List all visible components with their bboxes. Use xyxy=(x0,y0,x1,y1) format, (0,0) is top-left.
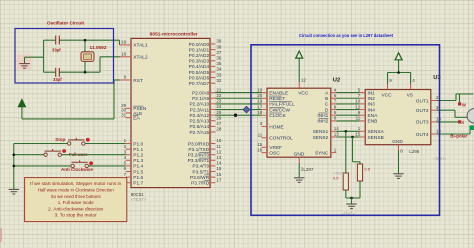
motor green terminal block xyxy=(470,126,474,130)
U2 pin 14 SENS1 xyxy=(313,126,340,135)
wire OUT2 to motor xyxy=(436,110,467,117)
U3 pin 11 ENB xyxy=(356,116,378,125)
U1 pin 3 P1.2 xyxy=(124,149,144,158)
svg-text:ENA: ENA xyxy=(368,113,379,119)
motor terminal W xyxy=(462,103,467,108)
button Stop xyxy=(68,138,90,145)
svg-text:EA: EA xyxy=(133,116,140,122)
svg-text:16: 16 xyxy=(216,172,222,177)
svg-text:SYNC: SYNC xyxy=(315,150,329,156)
svg-text:15: 15 xyxy=(355,132,361,137)
U3 pin 14 OUT4 xyxy=(416,129,442,138)
L297 datasheet annotation box xyxy=(251,45,440,216)
svg-text:10: 10 xyxy=(257,87,263,92)
U1 pin 32 P0.7/AD7 xyxy=(189,78,222,87)
label Anti Clockwise xyxy=(61,167,93,172)
svg-text:33pf: 33pf xyxy=(53,77,62,82)
svg-text:OSC: OSC xyxy=(269,150,280,156)
U1 pin 17 P3.7/RD xyxy=(191,177,222,186)
U3 pin 8 GND xyxy=(392,139,403,154)
svg-text:P2.6/A14: P2.6/A14 xyxy=(189,124,209,130)
svg-text:31: 31 xyxy=(121,112,127,117)
svg-text:11.0592: 11.0592 xyxy=(90,45,108,50)
U1 pin 15 P3.5/T1 xyxy=(192,166,222,175)
U2 pin 6 B xyxy=(325,93,337,102)
svg-text:SENS1: SENS1 xyxy=(313,129,329,135)
svg-text:12: 12 xyxy=(355,104,361,109)
U2 pin 7 C xyxy=(325,99,337,108)
wire XTAL2 net: C2 to riser to box edge xyxy=(60,57,121,72)
wire ground tap xyxy=(25,57,44,63)
note text line 2 xyxy=(38,188,114,193)
U2 pin 19 HALF/FULL xyxy=(257,99,295,108)
svg-text:P0.3/AD3: P0.3/AD3 xyxy=(189,59,210,65)
svg-text:P1.5: P1.5 xyxy=(133,169,143,175)
wire P2.1-RESET xyxy=(215,97,261,99)
label U3 TEXT placeholder xyxy=(433,157,446,161)
U1 pin 25 P2.4/A12 xyxy=(189,110,221,119)
label U2 xyxy=(333,78,340,84)
svg-text:<TEXT>: <TEXT> xyxy=(131,197,147,202)
junction crystal bottom xyxy=(84,71,87,74)
svg-text:P2.2/A10: P2.2/A10 xyxy=(189,102,209,108)
U2 pin 18 CLOCK xyxy=(257,110,286,119)
junction SENS2 xyxy=(351,136,354,139)
wire capacitor left bus xyxy=(44,40,56,72)
svg-text:P3.7/RD: P3.7/RD xyxy=(191,181,210,187)
svg-text:1. Full wave mode: 1. Full wave mode xyxy=(58,200,94,205)
wire Stop to P1.0 xyxy=(85,143,126,145)
svg-text:17: 17 xyxy=(216,177,222,182)
wire U2 GND down xyxy=(298,163,300,177)
U1 pin 5 P1.4 xyxy=(124,161,144,170)
svg-text:12: 12 xyxy=(216,149,222,154)
svg-text:24: 24 xyxy=(216,104,222,109)
U3 pin 7 IN2 xyxy=(358,93,376,102)
svg-text:13: 13 xyxy=(216,155,222,160)
wire B-IN2 xyxy=(336,97,359,99)
U2 pin 8 INH2 xyxy=(317,116,336,125)
U1 pin 21 P2.0/A8 xyxy=(192,87,222,96)
wire XTAL1 net: C1 to crystal to box edge xyxy=(60,40,120,45)
svg-text:32: 32 xyxy=(216,78,222,83)
U1 pin 24 P2.3/A11 xyxy=(190,104,222,113)
U3 pin 15 SENSB xyxy=(355,132,383,141)
svg-text:34: 34 xyxy=(216,67,222,72)
svg-text:13: 13 xyxy=(334,132,340,137)
svg-text:D: D xyxy=(325,107,329,113)
U1 pin 29 PSEN xyxy=(121,103,147,112)
note text line 1 xyxy=(30,181,122,186)
wire Full wave to P1.2 xyxy=(61,154,125,156)
wire D-IN4 xyxy=(336,109,359,111)
U3 pin 1 SENSA xyxy=(358,126,385,135)
wire SENS2 to R2 xyxy=(353,137,361,164)
svg-text:RESET: RESET xyxy=(269,96,285,102)
U1 pin 30 ALE xyxy=(121,108,142,117)
power symbol on RST net xyxy=(18,100,25,107)
ground (U2) xyxy=(294,178,305,183)
wire OUT3 to motor xyxy=(436,121,459,123)
U1 pin 35 P0.4/AD4 xyxy=(189,61,222,70)
svg-text:18: 18 xyxy=(257,110,263,115)
label C2 value 33pf xyxy=(53,77,62,82)
svg-text:P0.7/AD7: P0.7/AD7 xyxy=(189,81,210,87)
svg-text:33pf: 33pf xyxy=(52,48,61,53)
svg-text:28: 28 xyxy=(216,127,222,132)
U2 pin 5 INH1 xyxy=(317,110,336,119)
U1 pin 10 P3.0/RXD xyxy=(188,138,222,147)
wire A-IN1 xyxy=(336,92,359,94)
label U3 xyxy=(433,75,441,81)
wire OUT4 to motor xyxy=(436,130,470,134)
svg-text:8051-microcontroller: 8051-microcontroller xyxy=(150,31,198,36)
U1 pin 13 P3.3/INT1 xyxy=(188,155,222,164)
U2 pin 15 VREF xyxy=(257,142,282,151)
label 80C51 xyxy=(131,192,144,197)
label L297 xyxy=(303,167,314,172)
svg-text:11: 11 xyxy=(258,133,263,138)
button Full wave xyxy=(44,149,66,156)
crystal X1 11.0592 xyxy=(81,40,94,72)
microcontroller U1 body xyxy=(131,38,210,187)
U2 pin 11 CONTROL xyxy=(258,133,293,142)
U1 pin 6 P1.5 xyxy=(124,166,144,175)
wire Anti Clockwise to bus xyxy=(14,165,71,167)
U1 pin 31 EA xyxy=(121,112,140,121)
svg-text:P3.0/RXD: P3.0/RXD xyxy=(188,141,210,147)
svg-text:P2.0/A8: P2.0/A8 xyxy=(192,90,209,96)
svg-text:P0.2/AD2: P0.2/AD2 xyxy=(189,53,210,59)
wire resistor ground bus xyxy=(346,197,360,199)
U1 pin 26 P2.5/A13 xyxy=(189,115,221,124)
partial marker at left edge xyxy=(0,228,2,242)
U1 pin 36 P0.3/AD3 xyxy=(189,56,222,65)
U3 pin 10 IN3 xyxy=(355,99,375,108)
selection highlight around oscillator ground xyxy=(17,55,32,71)
svg-text:Bi-polar: Bi-polar xyxy=(450,133,467,138)
marker diamond on CW/CCW wire xyxy=(243,106,250,113)
label box TEXT placeholder xyxy=(342,212,355,216)
U3 pin 5 IN1 xyxy=(358,87,376,96)
U1 pin 38 P0.1/AD1 xyxy=(189,44,222,53)
wire button ground bus xyxy=(13,144,15,190)
label R2 value 0.5 xyxy=(364,166,370,171)
U2 pin 17 CW/CCW xyxy=(257,104,290,113)
power symbol VCC (U2) xyxy=(296,51,303,58)
svg-text:38: 38 xyxy=(216,44,222,49)
label Oscillator Circuit xyxy=(47,21,84,26)
U3 pin 2 OUT1 xyxy=(416,95,439,104)
svg-text:L298: L298 xyxy=(409,149,420,154)
svg-text:P0.0/AD0: P0.0/AD0 xyxy=(189,42,210,48)
svg-text:P0.1/AD1: P0.1/AD1 xyxy=(189,47,210,53)
wire OUT1 to motor xyxy=(436,94,473,102)
wire Full wave to bus xyxy=(14,154,44,156)
svg-text:P1.2: P1.2 xyxy=(133,153,143,159)
driver U3 L298 body xyxy=(365,90,431,145)
motor pad W xyxy=(458,102,461,105)
svg-text:33: 33 xyxy=(216,72,222,77)
U1 pin 27 P2.6/A14 xyxy=(189,121,221,130)
svg-text:ENABLE: ENABLE xyxy=(269,90,288,96)
note text line 6 xyxy=(55,213,98,218)
svg-text:XTAL1: XTAL1 xyxy=(133,43,148,49)
U1 pin 12 P3.2/INT0 xyxy=(188,149,222,158)
wire R1 to ground bus xyxy=(345,190,347,198)
U1 pin 18 XTAL2 xyxy=(120,52,148,61)
label U1 TEXT placeholder xyxy=(131,197,147,202)
svg-text:IN4: IN4 xyxy=(368,107,376,113)
svg-text:If we start simulation, Steppe: If we start simulation, Stepper motor ru… xyxy=(30,181,122,186)
svg-text:VREF: VREF xyxy=(269,145,282,151)
U1 pin 34 P0.5/AD5 xyxy=(189,67,222,76)
U2 pin 4 A xyxy=(325,87,337,96)
svg-text:CLOCK: CLOCK xyxy=(269,113,286,119)
note text line 5 xyxy=(48,206,104,211)
wire U3 GND down xyxy=(398,151,400,174)
U2 pin 9 D xyxy=(325,104,337,113)
U1 pin 2 P1.1 xyxy=(124,144,144,153)
junction crystal top xyxy=(84,39,87,42)
wire RST to power xyxy=(22,80,120,119)
resistor R1 0.5 xyxy=(343,173,348,190)
wire Anti Clockwise to P1.4 xyxy=(88,165,125,167)
svg-text:L297: L297 xyxy=(303,167,314,172)
svg-text:P0.6/AD6: P0.6/AD6 xyxy=(189,75,210,81)
svg-text:U2: U2 xyxy=(333,78,340,84)
svg-text:C: C xyxy=(325,102,329,108)
svg-text:37: 37 xyxy=(216,50,222,55)
label crystal value 11.0592 xyxy=(90,45,108,50)
ground (buttons) xyxy=(9,189,19,194)
svg-text:P2.5/A13: P2.5/A13 xyxy=(189,119,209,125)
label Stop xyxy=(55,137,65,142)
svg-text:P1.6: P1.6 xyxy=(133,175,143,181)
svg-text:P3.6/WR: P3.6/WR xyxy=(190,175,210,181)
wire INH2-ENB xyxy=(336,120,359,122)
svg-text:11: 11 xyxy=(216,144,221,149)
svg-text:Half wave mode in Clockwise Di: Half wave mode in Clockwise Direction xyxy=(38,188,114,193)
U1 pin 14 P3.4/T0 xyxy=(192,161,222,170)
wire P2.0-ENABLE xyxy=(215,92,261,94)
svg-text:OUT1: OUT1 xyxy=(416,98,429,104)
svg-text:IN3: IN3 xyxy=(368,102,376,108)
driver U2 L297 body xyxy=(267,88,331,157)
svg-text:SENSA: SENSA xyxy=(368,129,385,135)
svg-text:36: 36 xyxy=(216,56,222,61)
svg-text:0.5: 0.5 xyxy=(333,176,339,181)
capacitor C1 33pf xyxy=(56,36,60,45)
U1 pin 1 P1.0 xyxy=(124,138,144,147)
U3 pin 9 VCC xyxy=(382,78,393,99)
U3 pin 13 OUT3 xyxy=(416,117,442,126)
ground (U3) xyxy=(393,174,404,179)
wire ground stem xyxy=(351,198,353,204)
label R1 value 0.5 xyxy=(333,176,339,181)
svg-text:CONTROL: CONTROL xyxy=(269,136,293,142)
junction bus P1.2 row xyxy=(13,153,16,156)
ground (sense resistors) xyxy=(346,204,357,209)
svg-text:25: 25 xyxy=(216,110,222,115)
wire R2 to ground bus xyxy=(359,181,361,198)
U2 pin 16 OSC xyxy=(257,147,280,156)
svg-text:P2.3/A11: P2.3/A11 xyxy=(190,107,210,113)
svg-text:3. To stop the motor: 3. To stop the motor xyxy=(55,213,98,218)
ground (oscillator) xyxy=(19,64,30,69)
svg-text:P2.4/A12: P2.4/A12 xyxy=(189,113,209,119)
svg-text:11: 11 xyxy=(356,116,361,121)
label Full wave xyxy=(69,152,88,157)
label L298 xyxy=(409,149,420,154)
U2 pin 12 VCC xyxy=(298,77,309,96)
power symbol VCC (U3) xyxy=(395,53,402,60)
U1 pin 4 P1.3 xyxy=(124,155,144,164)
label Circuit connection as you see in L297 datasheet xyxy=(299,33,393,38)
svg-text:P1.7: P1.7 xyxy=(133,181,143,187)
capacitor C2 33pf xyxy=(56,68,60,77)
U2 pin 1 SYNC xyxy=(315,147,337,156)
svg-text:19: 19 xyxy=(121,40,127,45)
svg-text:10: 10 xyxy=(355,99,361,104)
svg-text:P1.0: P1.0 xyxy=(133,141,143,147)
svg-text:12: 12 xyxy=(301,77,307,82)
wire Stop to bus xyxy=(14,143,68,145)
wire SENS1-SENSA xyxy=(336,130,359,132)
note box xyxy=(25,178,127,222)
svg-text:OUT2: OUT2 xyxy=(416,108,429,114)
svg-text:HOME: HOME xyxy=(269,124,283,130)
svg-text:P1.1: P1.1 xyxy=(133,147,143,153)
svg-text:2. Anti-clockwise direction: 2. Anti-clockwise direction xyxy=(48,206,104,211)
svg-text:16: 16 xyxy=(257,147,263,152)
svg-text:22: 22 xyxy=(216,93,222,98)
svg-text:26: 26 xyxy=(216,115,222,120)
U1 pin 37 P0.2/AD2 xyxy=(189,50,222,59)
svg-text:Circuit connection as you see: Circuit connection as you see in L297 da… xyxy=(299,33,393,38)
svg-text:Oscillator Circuit: Oscillator Circuit xyxy=(47,21,84,26)
U1 pin 9 RST xyxy=(120,75,143,84)
label Bi-polar xyxy=(450,133,467,138)
wire U2 VCC to power xyxy=(298,57,300,82)
svg-text:OUT3: OUT3 xyxy=(416,120,429,126)
U2 pin 13 SENS2 xyxy=(313,132,340,141)
svg-text:P1.3: P1.3 xyxy=(133,158,143,164)
U3 pin 4 VS xyxy=(407,78,416,99)
svg-text:19: 19 xyxy=(257,99,263,104)
svg-text:P2.7/A15: P2.7/A15 xyxy=(189,130,209,136)
svg-text:GND: GND xyxy=(294,152,305,158)
svg-text:14: 14 xyxy=(216,161,222,166)
svg-text:P3.1/TXD: P3.1/TXD xyxy=(188,147,209,153)
U3 pin 12 IN4 xyxy=(355,104,375,113)
svg-text:P3.2/INT0: P3.2/INT0 xyxy=(188,153,210,159)
note text line 3 xyxy=(51,194,102,199)
junction bus P1.4 row xyxy=(13,165,16,168)
label R1 TEXT placeholder xyxy=(333,172,346,176)
label C1 value 33pf xyxy=(52,48,61,53)
label 8051-microcontroller xyxy=(150,31,198,36)
U2 pin 20 RESET xyxy=(257,93,285,102)
resistor R2 0.5 xyxy=(357,164,362,181)
junction U3 supply xyxy=(397,71,400,74)
svg-text:35: 35 xyxy=(216,61,222,66)
svg-text:14: 14 xyxy=(334,126,340,131)
wire U3 supply bracket xyxy=(388,59,411,84)
svg-text:So we need three buttons: So we need three buttons xyxy=(51,194,102,199)
svg-text:SENS2: SENS2 xyxy=(313,135,329,141)
motor body xyxy=(467,109,474,123)
U1 pin 28 P2.7/A15 xyxy=(189,127,221,136)
wire P2.3-CW/CCW xyxy=(215,109,261,111)
U1 pin 19 XTAL1 xyxy=(120,40,148,49)
svg-text:RST: RST xyxy=(133,78,143,84)
svg-text:VCC: VCC xyxy=(382,92,393,98)
svg-text:P0.5/AD5: P0.5/AD5 xyxy=(189,70,210,76)
U1 pin 33 P0.6/AD6 xyxy=(189,72,222,81)
svg-text:VS: VS xyxy=(407,92,413,98)
svg-text:P0.4/AD4: P0.4/AD4 xyxy=(189,64,210,70)
svg-text:P3.3/INT1: P3.3/INT1 xyxy=(188,158,210,164)
U3 pin 6 ENA xyxy=(358,110,378,119)
U1 pin 11 P3.1/TXD xyxy=(188,144,221,153)
wire SENS1 to R1 xyxy=(345,131,347,173)
U3 pin 3 OUT2 xyxy=(416,105,439,114)
svg-text:21: 21 xyxy=(216,87,222,92)
motor terminal X xyxy=(461,120,464,125)
U2 pin 2 GND xyxy=(294,152,305,172)
svg-text:18: 18 xyxy=(121,52,127,57)
svg-text:IN2: IN2 xyxy=(368,96,376,102)
junction on CLOCK wire xyxy=(234,114,237,117)
svg-text:X: X xyxy=(461,120,464,125)
svg-text:27: 27 xyxy=(216,121,222,126)
wire C-IN3 xyxy=(336,103,359,105)
svg-text:20: 20 xyxy=(257,93,263,98)
svg-text:XTAL2: XTAL2 xyxy=(133,55,148,61)
wire P2.4-CLOCK xyxy=(215,114,261,116)
junction SENS1 xyxy=(345,130,348,133)
svg-text:VCC: VCC xyxy=(298,91,309,97)
wire INH1-ENA xyxy=(336,114,359,116)
svg-text:0.5: 0.5 xyxy=(364,166,370,171)
svg-text:15: 15 xyxy=(257,142,263,147)
svg-text:Stop: Stop xyxy=(55,137,65,142)
svg-text:Anti Clockwise: Anti Clockwise xyxy=(61,167,93,172)
svg-text:P2.1/A9: P2.1/A9 xyxy=(192,96,209,102)
svg-text:IN1: IN1 xyxy=(368,90,376,96)
button Anti Clockwise xyxy=(71,160,93,167)
svg-text:P1.4: P1.4 xyxy=(133,164,143,170)
svg-text:INH2: INH2 xyxy=(317,119,328,125)
U1 pin 7 P1.6 xyxy=(124,172,144,181)
U1 pin 8 P1.7 xyxy=(124,177,144,186)
wire P2.2-HALF/FULL xyxy=(215,103,261,105)
svg-text:CW/CCW: CW/CCW xyxy=(269,107,290,113)
svg-text:P3.4/T0: P3.4/T0 xyxy=(192,164,209,170)
svg-text:P3.5/T1: P3.5/T1 xyxy=(192,169,209,175)
U1 pin 16 P3.6/WR xyxy=(190,172,222,181)
svg-text:ENB: ENB xyxy=(368,119,378,125)
svg-text:39: 39 xyxy=(216,39,222,44)
svg-text:B: B xyxy=(325,96,328,102)
svg-text:INH1: INH1 xyxy=(317,113,328,119)
U1 pin 39 P0.0/AD0 xyxy=(189,39,222,48)
svg-text:OUT4: OUT4 xyxy=(416,132,429,138)
svg-text:SENSB: SENSB xyxy=(368,135,384,141)
junction ground bus xyxy=(350,197,353,200)
U2 pin 10 ENABLE xyxy=(257,87,288,96)
